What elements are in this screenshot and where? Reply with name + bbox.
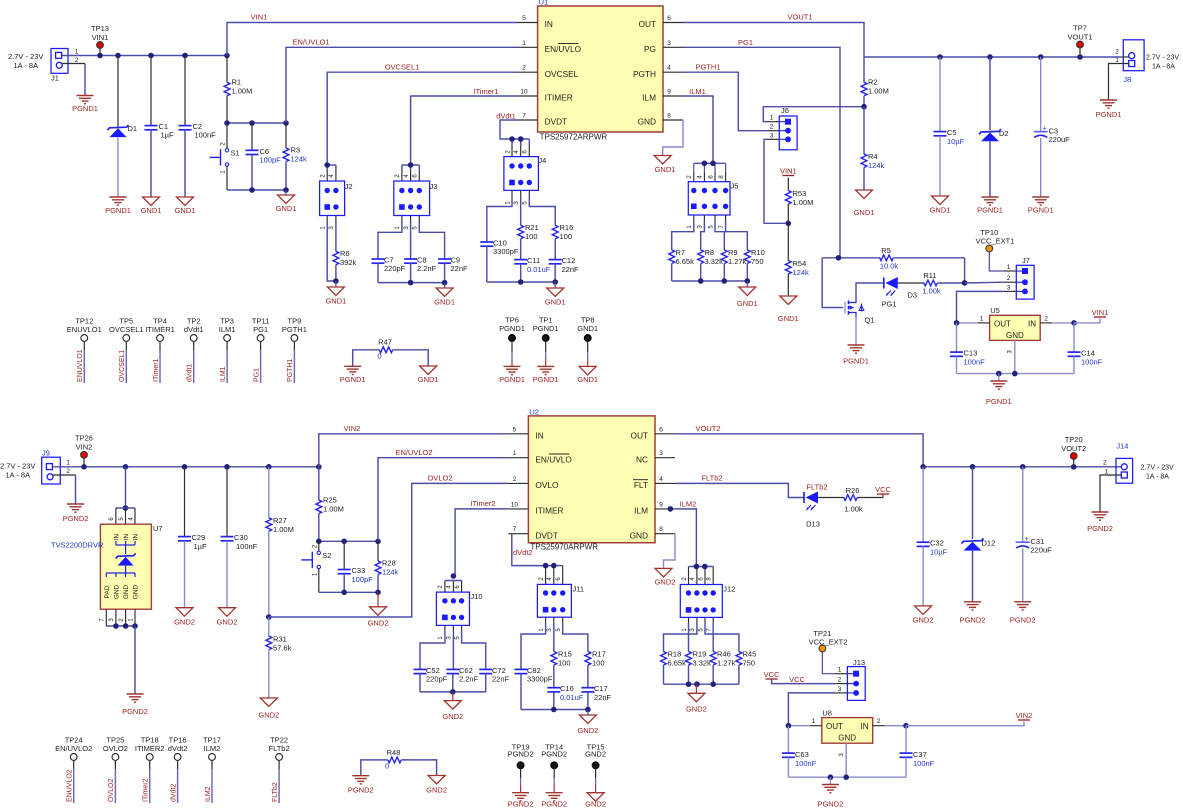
svg-text:100nF: 100nF: [913, 759, 935, 768]
svg-text:J3: J3: [430, 182, 438, 191]
svg-text:GND2: GND2: [913, 616, 934, 625]
ground GND1 at C1: [141, 197, 162, 215]
svg-text:R1: R1: [232, 78, 242, 87]
svg-text:R45: R45: [743, 650, 757, 659]
resistor R16: [529, 190, 573, 259]
capacitor C52: [414, 625, 448, 692]
svg-text:1: 1: [522, 40, 526, 47]
svg-text:1: 1: [75, 49, 79, 56]
wire J6 pin1: [763, 107, 864, 122]
svg-text:1.27k: 1.27k: [717, 659, 736, 668]
wire U8 in: [885, 722, 1024, 729]
svg-text:ITimer1: ITimer1: [473, 87, 498, 96]
svg-text:FLTb2: FLTb2: [269, 744, 290, 753]
svg-text:1.00M: 1.00M: [232, 87, 253, 96]
svg-text:dVdt1: dVdt1: [187, 364, 194, 382]
resistor R18: [661, 617, 689, 684]
svg-text:VOUT1: VOUT1: [1067, 33, 1092, 42]
svg-text:7: 7: [513, 526, 517, 533]
test point TP8: [577, 316, 598, 384]
wire ITimer1: [402, 87, 518, 171]
svg-text:D13: D13: [806, 520, 820, 529]
svg-text:ILM1: ILM1: [689, 87, 706, 96]
svg-text:0: 0: [385, 761, 389, 770]
svg-text:PAD: PAD: [104, 585, 111, 598]
svg-text:4: 4: [667, 65, 671, 72]
svg-text:220pF: 220pF: [426, 675, 448, 684]
switch S2: [301, 541, 331, 592]
svg-text:1: 1: [513, 450, 517, 457]
node VIN2 at U8: [1016, 711, 1033, 720]
wire S2 bottom rail: [319, 590, 381, 596]
svg-text:124k: 124k: [382, 568, 399, 577]
svg-text:OVCSEL1: OVCSEL1: [109, 325, 144, 334]
ground PGND2 at J14: [1087, 512, 1113, 533]
svg-text:124k: 124k: [291, 155, 308, 164]
svg-text:1.00M: 1.00M: [323, 505, 344, 514]
svg-text:PGND1: PGND1: [72, 104, 98, 113]
svg-text:VIN2: VIN2: [344, 424, 361, 433]
svg-text:GND1: GND1: [577, 324, 598, 333]
connector J9: [0, 448, 70, 484]
svg-text:2.7V - 23V: 2.7V - 23V: [1141, 465, 1174, 472]
svg-text:C29: C29: [192, 533, 206, 542]
svg-text:R17: R17: [592, 650, 606, 659]
test point TP16: [168, 736, 188, 804]
svg-text:100nF: 100nF: [795, 759, 817, 768]
svg-text:3: 3: [1007, 284, 1011, 291]
wire EN/UVLO1 to pin1: [286, 38, 518, 124]
svg-text:ILM: ILM: [634, 506, 648, 516]
svg-text:PGND1: PGND1: [1028, 206, 1054, 215]
svg-text:J4: J4: [538, 156, 546, 165]
test point TP9: [282, 317, 307, 384]
svg-text:PGND2: PGND2: [541, 800, 567, 809]
svg-text:TVS2200DRVR: TVS2200DRVR: [51, 541, 104, 550]
capacitor C5: [934, 57, 965, 196]
ground PGND1 at C3: [1028, 197, 1054, 215]
svg-text:GND: GND: [1006, 331, 1024, 340]
svg-text:1A - 8A: 1A - 8A: [14, 61, 39, 70]
svg-text:R54: R54: [793, 259, 807, 268]
svg-text:R46: R46: [717, 650, 731, 659]
svg-text:VCC: VCC: [789, 675, 805, 684]
svg-text:TP13: TP13: [91, 24, 109, 33]
svg-text:J8: J8: [1123, 75, 1131, 84]
svg-text:GND1: GND1: [276, 204, 297, 213]
node VCC at J13: [764, 670, 835, 684]
capacitor C30: [221, 467, 258, 608]
svg-text:R47: R47: [378, 337, 392, 346]
ground PGND1 at Q1: [843, 345, 869, 366]
test point TP1: [533, 316, 559, 384]
svg-text:3300pF: 3300pF: [527, 675, 553, 684]
diode D2: [979, 57, 1009, 197]
svg-text:3.32k: 3.32k: [705, 257, 724, 266]
ground GND1 at C2: [175, 197, 196, 215]
svg-text:2: 2: [1103, 460, 1107, 467]
svg-text:FLTb2: FLTb2: [701, 474, 722, 483]
wire U8 rail: [788, 774, 906, 780]
svg-text:GND1: GND1: [737, 299, 758, 308]
wire dVdt2: [512, 534, 563, 566]
svg-text:2.2nF: 2.2nF: [417, 264, 437, 273]
wire VOUT1: [683, 13, 864, 58]
wire OVLO2: [269, 474, 509, 618]
svg-text:C82: C82: [527, 666, 541, 675]
svg-text:ITIMER: ITIMER: [545, 93, 573, 103]
wire S1 bottom rail: [227, 187, 289, 193]
capacitor C62: [446, 625, 478, 692]
capacitor C32: [917, 467, 948, 606]
svg-text:PGND2: PGND2: [508, 800, 534, 809]
svg-text:TP26: TP26: [75, 434, 93, 443]
wire U5 rail: [957, 371, 1075, 377]
svg-text:D1: D1: [128, 124, 138, 133]
test point TP12: [67, 317, 102, 384]
svg-text:1: 1: [838, 667, 842, 674]
svg-text:PG: PG: [644, 44, 656, 54]
ground GND1 at R10: [737, 281, 758, 308]
svg-text:PGND2: PGND2: [1087, 524, 1113, 533]
svg-text:5: 5: [513, 426, 517, 433]
svg-text:220uF: 220uF: [1031, 546, 1053, 555]
svg-text:C72: C72: [492, 666, 506, 675]
svg-text:S2: S2: [322, 551, 331, 560]
svg-text:7: 7: [522, 113, 526, 120]
svg-text:C63: C63: [795, 750, 809, 759]
svg-text:GND1: GND1: [577, 375, 598, 384]
node VIN1 at R53: [780, 166, 797, 175]
svg-text:22nF: 22nF: [562, 265, 580, 274]
test point TP5: [109, 317, 144, 384]
svg-text:S1: S1: [231, 148, 240, 157]
resistor R9: [715, 215, 747, 281]
svg-text:PGTH: PGTH: [633, 69, 656, 79]
test point TP15: [585, 743, 606, 809]
svg-text:100nF: 100nF: [1081, 358, 1103, 367]
svg-text:8: 8: [667, 113, 671, 120]
ground PGND2 at R48: [348, 776, 374, 795]
resistor R45: [713, 617, 756, 684]
ground PGND1 at U5: [986, 374, 1012, 406]
capacitor C1: [145, 56, 174, 198]
jumper J12: [680, 564, 735, 632]
svg-text:1.00k: 1.00k: [844, 505, 863, 514]
svg-text:2: 2: [877, 718, 881, 725]
svg-text:TP20: TP20: [1065, 435, 1083, 444]
svg-text:GND: GND: [114, 584, 121, 599]
svg-text:ENUVLO1: ENUVLO1: [67, 325, 102, 334]
svg-text:22nF: 22nF: [594, 693, 612, 702]
resistor R4: [861, 107, 884, 190]
ground PGND1 at J1: [72, 96, 98, 114]
svg-text:100: 100: [592, 659, 605, 668]
svg-text:1.00M: 1.00M: [273, 525, 294, 534]
svg-text:TP6: TP6: [505, 316, 519, 325]
svg-text:PGND2: PGND2: [63, 514, 89, 523]
svg-text:2.2nF: 2.2nF: [459, 675, 479, 684]
capacitor C16: [547, 684, 583, 710]
svg-text:R27: R27: [273, 516, 287, 525]
svg-text:C37: C37: [913, 750, 927, 759]
svg-text:R53: R53: [793, 189, 807, 198]
svg-text:PG1: PG1: [738, 38, 753, 47]
resistor R25: [316, 467, 344, 542]
svg-text:J11: J11: [573, 585, 585, 594]
svg-text:J2: J2: [345, 182, 353, 191]
svg-text:TPS25970ARPWR: TPS25970ARPWR: [530, 542, 598, 551]
svg-text:GND1: GND1: [545, 298, 566, 307]
regulator U8: [810, 709, 885, 778]
test point TP6: [499, 316, 525, 384]
svg-text:ITimer1: ITimer1: [153, 358, 160, 382]
svg-text:C17: C17: [594, 684, 608, 693]
svg-text:TPS25972ARPWR: TPS25972ARPWR: [540, 133, 608, 142]
svg-text:IN: IN: [132, 533, 139, 540]
ground PGND2 at C31: [1010, 602, 1036, 625]
svg-text:C30: C30: [234, 533, 248, 542]
svg-text:FLTb2: FLTb2: [806, 483, 827, 492]
svg-text:GND2: GND2: [174, 618, 195, 627]
jumper J2: [320, 171, 353, 230]
svg-text:R4: R4: [868, 152, 878, 161]
ground GND2 at J12: [686, 684, 707, 713]
svg-text:ENUVLO1: ENUVLO1: [77, 349, 84, 382]
wire VIN2 bus: [53, 464, 322, 470]
svg-text:PGND2: PGND2: [1010, 616, 1036, 625]
svg-text:PGND1: PGND1: [499, 324, 525, 333]
svg-text:GND1: GND1: [930, 206, 951, 215]
svg-text:1.00M: 1.00M: [868, 87, 889, 96]
svg-text:GND: GND: [638, 117, 656, 127]
svg-text:100: 100: [525, 232, 538, 241]
svg-text:2: 2: [770, 124, 774, 131]
resistor R47: [353, 337, 429, 366]
svg-text:R15: R15: [558, 650, 572, 659]
svg-text:1: 1: [1007, 264, 1011, 271]
wire U5 in: [1052, 319, 1100, 326]
resistor R1: [224, 56, 252, 124]
svg-text:R10: R10: [751, 248, 765, 257]
test point TP18: [135, 736, 165, 804]
svg-text:OVLO2: OVLO2: [427, 474, 452, 483]
capacitor C10: [480, 190, 519, 282]
resistor R8: [698, 215, 723, 281]
capacitor C8: [404, 216, 436, 283]
svg-text:NC: NC: [636, 454, 648, 464]
ground GND1 at C9: [434, 283, 455, 307]
svg-text:PGND2: PGND2: [960, 616, 986, 625]
ground GND2 at C29: [174, 608, 195, 627]
test point TP17: [203, 736, 221, 804]
ground GND1 at R6: [325, 281, 346, 306]
wire J1.2 to PGND1: [62, 64, 85, 96]
wire J5 top rail: [694, 161, 726, 172]
TVS diode D1: [108, 56, 138, 198]
svg-text:PGND2: PGND2: [122, 707, 148, 716]
svg-text:R2: R2: [868, 78, 878, 87]
svg-text:OVCSEL: OVCSEL: [545, 69, 579, 79]
resistor R3: [283, 123, 307, 190]
svg-text:1.00k: 1.00k: [922, 287, 941, 296]
svg-text:392k: 392k: [340, 258, 357, 267]
capacitor C9: [419, 216, 468, 283]
capacitor C2: [179, 56, 217, 198]
ground GND2 at C32: [913, 606, 934, 625]
svg-text:IN: IN: [535, 430, 543, 440]
ground GND1 at R47: [418, 366, 439, 384]
wire U2 GND: [664, 534, 676, 569]
svg-text:GND2: GND2: [426, 786, 447, 795]
svg-text:R16: R16: [560, 223, 574, 232]
capacitor C7: [372, 216, 406, 283]
wire PG1: [683, 38, 840, 258]
svg-text:GND1: GND1: [655, 165, 676, 174]
svg-text:U1: U1: [539, 0, 549, 7]
ground GND1 at R54: [778, 296, 799, 323]
svg-text:ITIMER: ITIMER: [535, 506, 563, 516]
wire U8 out: [786, 723, 810, 729]
svg-text:3.32k: 3.32k: [693, 659, 712, 668]
svg-text:R9: R9: [728, 248, 738, 257]
svg-text:10.0k: 10.0k: [880, 262, 899, 271]
svg-text:GND2: GND2: [585, 800, 606, 809]
resistor R2: [861, 57, 889, 109]
svg-text:C52: C52: [426, 666, 440, 675]
svg-text:GND2: GND2: [442, 712, 463, 721]
test point TP2: [184, 317, 204, 384]
ground GND2 at C62: [442, 692, 463, 721]
resistor R5: [880, 246, 965, 282]
svg-text:6: 6: [667, 15, 671, 22]
ground PGND2 at U8: [817, 777, 843, 808]
wire S2 top rail: [316, 539, 381, 545]
svg-text:VOUT1: VOUT1: [787, 13, 812, 22]
svg-text:ITIMER1: ITIMER1: [145, 325, 175, 334]
resistor R54: [785, 221, 809, 297]
svg-text:U5: U5: [990, 306, 1000, 315]
resistor R6: [333, 216, 357, 282]
svg-text:C32: C32: [930, 539, 944, 548]
svg-text:GND2: GND2: [585, 750, 606, 759]
svg-text:R3: R3: [291, 146, 301, 155]
ground GND2 at R28: [368, 592, 389, 627]
svg-text:OUT: OUT: [630, 430, 648, 440]
ground GND2 at R48: [426, 776, 447, 795]
svg-text:220uF: 220uF: [1049, 135, 1071, 144]
svg-text:OVLO2: OVLO2: [108, 779, 115, 802]
svg-text:GND: GND: [838, 734, 856, 743]
resistor R7: [669, 215, 694, 281]
svg-text:ITimer2: ITimer2: [470, 499, 495, 508]
svg-text:R48: R48: [387, 748, 401, 757]
ground GND1 at C12: [545, 282, 566, 307]
svg-text:PGND1: PGND1: [977, 206, 1003, 215]
svg-text:VCC_EXT1: VCC_EXT1: [976, 237, 1015, 246]
svg-text:PGND1: PGND1: [533, 375, 559, 384]
ground GND2 at U2: [655, 568, 676, 586]
svg-text:PGND1: PGND1: [1096, 110, 1122, 119]
wire dVdt1: [496, 111, 529, 146]
wire U7 gnd: [134, 626, 136, 694]
capacitor C14: [1068, 323, 1103, 374]
svg-text:J7: J7: [1022, 256, 1030, 265]
resistor R19: [686, 617, 711, 684]
svg-text:ILM2: ILM2: [204, 744, 221, 753]
wire VIN2 to IN: [319, 424, 509, 467]
svg-text:OUT: OUT: [826, 722, 843, 731]
connector J1: [8, 49, 79, 83]
svg-text:EN/UVLO2: EN/UVLO2: [395, 448, 432, 457]
wire J9.2 to PGND2: [53, 475, 76, 504]
resistor R28: [375, 541, 398, 592]
resistor R26: [844, 486, 883, 514]
svg-text:VIN1: VIN1: [1092, 308, 1109, 317]
wire C7-C9 rail: [378, 280, 447, 286]
svg-text:VCC_EXT2: VCC_EXT2: [809, 637, 848, 646]
svg-text:dVdt2: dVdt2: [168, 744, 188, 753]
jumper J10: [436, 573, 482, 639]
wire R18-R45 rail: [664, 681, 739, 687]
svg-text:GND1: GND1: [778, 314, 799, 323]
svg-text:750: 750: [743, 659, 756, 668]
capacitor C31: [1016, 467, 1052, 602]
wire Q1 source: [855, 317, 857, 345]
test point TP19: [508, 743, 534, 809]
test point TP3: [219, 317, 236, 384]
svg-text:100: 100: [558, 659, 571, 668]
svg-text:OVLO2: OVLO2: [103, 744, 128, 753]
svg-text:FLT: FLT: [634, 480, 648, 490]
transistor Q1: [845, 299, 875, 325]
svg-text:dVdt2: dVdt2: [513, 548, 533, 557]
svg-text:750: 750: [751, 257, 764, 266]
svg-text:GND2: GND2: [258, 711, 279, 720]
svg-text:D2: D2: [999, 129, 1009, 138]
ground PGND1 at R47: [340, 366, 366, 384]
svg-text:1A - 8A: 1A - 8A: [1152, 64, 1175, 71]
jumper J5: [687, 172, 738, 229]
wire S1 top rail: [224, 120, 289, 126]
svg-text:10µF: 10µF: [947, 137, 965, 146]
switch S1: [210, 123, 240, 190]
connector J8: [1115, 40, 1179, 84]
svg-text:ILM2: ILM2: [680, 499, 697, 508]
svg-text:OVCSEL1: OVCSEL1: [119, 350, 126, 382]
svg-text:GND1: GND1: [854, 208, 875, 217]
svg-text:+: +: [1025, 536, 1029, 543]
wire PGTH1: [683, 63, 767, 131]
svg-text:2: 2: [1007, 275, 1011, 282]
capacitor C82: [515, 617, 553, 709]
LED D13: [804, 483, 844, 529]
svg-text:4: 4: [659, 476, 663, 483]
wire C10-C12 rail: [487, 279, 558, 285]
test point TP22: [269, 736, 290, 804]
capacitor C12: [549, 256, 579, 282]
svg-text:dVdt1: dVdt1: [184, 325, 204, 334]
svg-text:PGND1: PGND1: [986, 397, 1012, 406]
jumper J7: [1004, 256, 1034, 299]
svg-text:R5: R5: [881, 246, 891, 255]
svg-text:R31: R31: [273, 635, 287, 644]
svg-text:PGND1: PGND1: [499, 375, 525, 384]
svg-text:J13: J13: [853, 658, 865, 667]
ground GND2 at R31: [258, 698, 279, 720]
svg-text:R7: R7: [676, 248, 686, 257]
svg-text:R8: R8: [705, 248, 715, 257]
